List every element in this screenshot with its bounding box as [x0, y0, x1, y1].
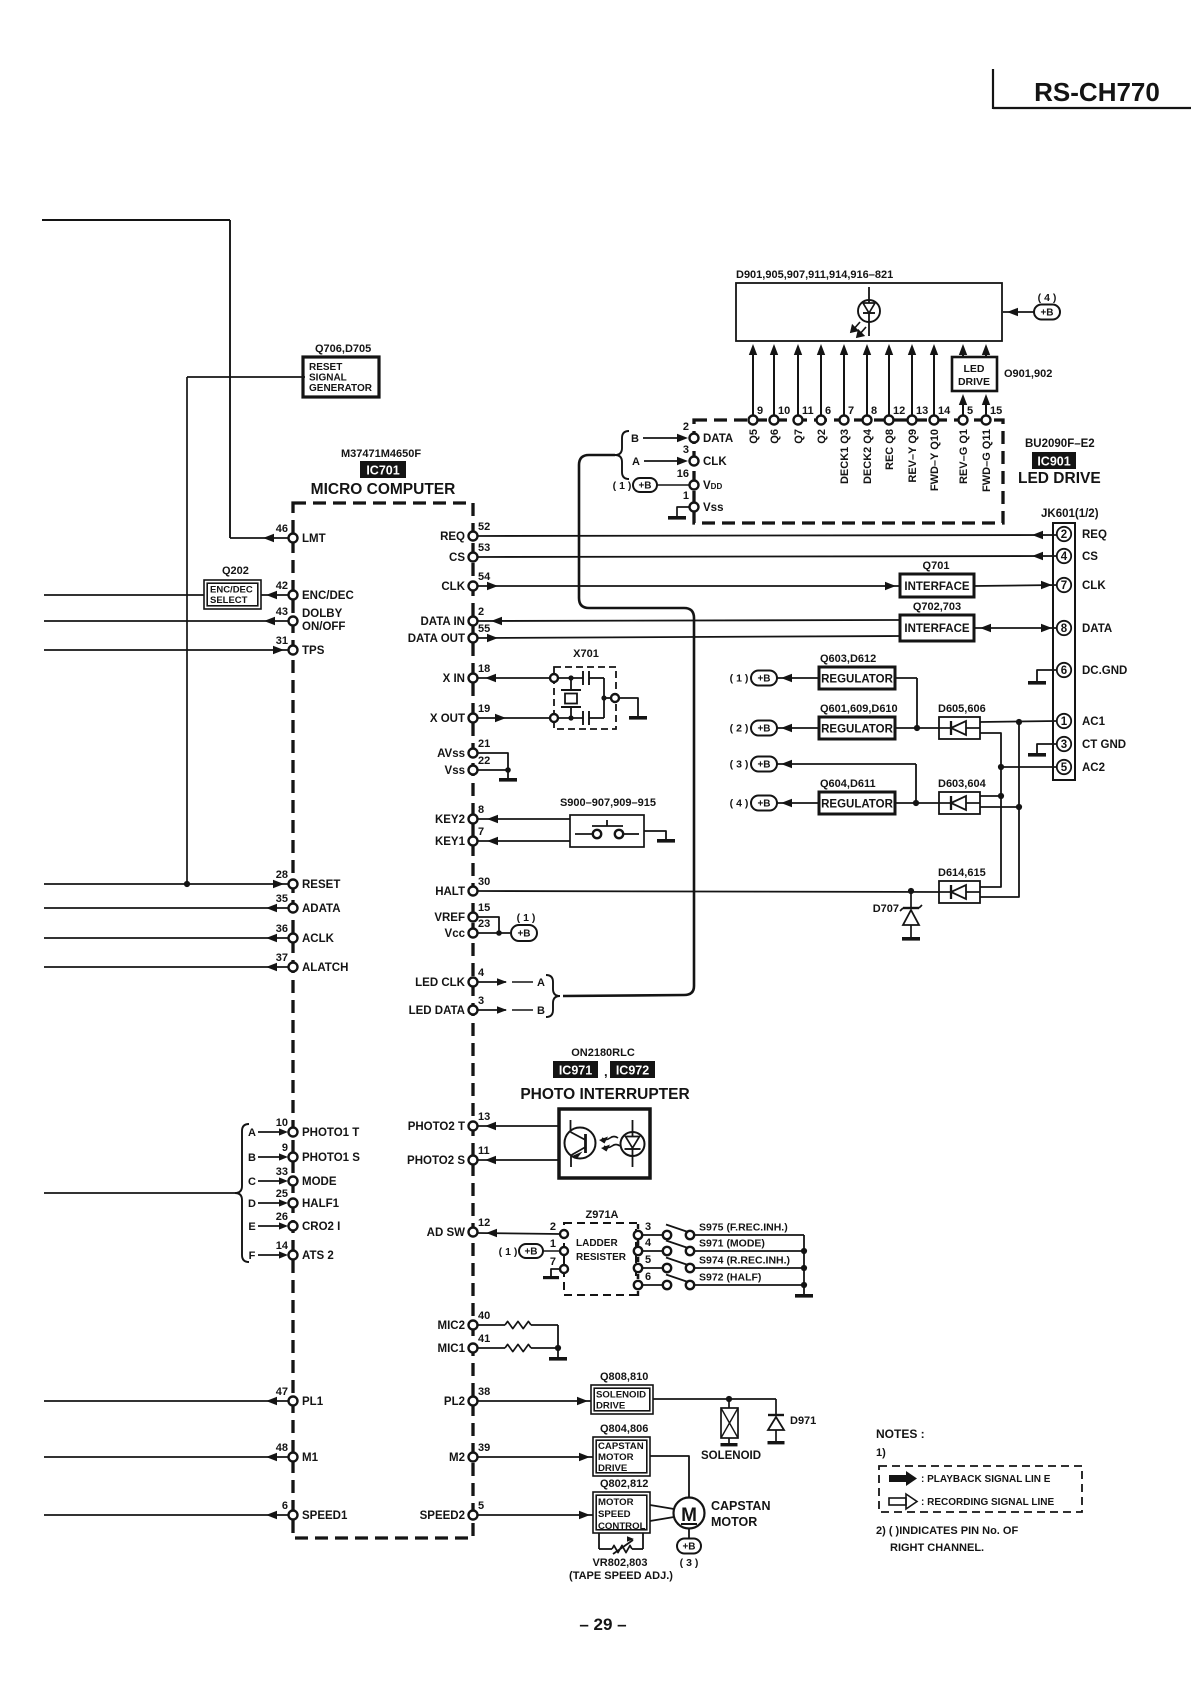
- svg-text:CS: CS: [1082, 551, 1098, 563]
- svg-text:AD SW: AD SW: [427, 1227, 465, 1239]
- svg-text:SOLENOID: SOLENOID: [596, 1390, 646, 1401]
- svg-text:GENERATOR: GENERATOR: [309, 383, 373, 394]
- svg-text:5: 5: [1061, 762, 1068, 774]
- svg-text:3: 3: [478, 995, 484, 1007]
- svg-text:46: 46: [276, 523, 288, 535]
- svg-text:IC701: IC701: [366, 464, 399, 478]
- svg-text:O901,902: O901,902: [1004, 368, 1052, 380]
- svg-text:ATS 2: ATS 2: [302, 1250, 334, 1262]
- svg-text:1: 1: [683, 490, 689, 502]
- svg-text:S974 (R.REC.INH.): S974 (R.REC.INH.): [699, 1255, 790, 1267]
- svg-text:CLK: CLK: [1082, 580, 1106, 592]
- svg-text:SOLENOID: SOLENOID: [701, 1450, 761, 1462]
- svg-text:BU2090F–E2: BU2090F–E2: [1025, 438, 1095, 450]
- svg-text:39: 39: [478, 1442, 490, 1454]
- svg-text:2: 2: [478, 606, 484, 618]
- svg-text:A: A: [537, 977, 545, 989]
- svg-text:B: B: [248, 1152, 256, 1164]
- svg-text:HALT: HALT: [435, 886, 465, 898]
- svg-text:Q808,810: Q808,810: [600, 1371, 648, 1383]
- svg-text:F: F: [249, 1250, 256, 1262]
- svg-text:MOTOR: MOTOR: [711, 1515, 757, 1529]
- svg-text:MIC1: MIC1: [438, 1343, 466, 1355]
- svg-text:LED: LED: [964, 363, 985, 375]
- svg-text:MIC2: MIC2: [438, 1320, 465, 1332]
- svg-text:X701: X701: [573, 648, 599, 660]
- svg-text:SELECT: SELECT: [210, 595, 248, 606]
- svg-text:ALATCH: ALATCH: [302, 962, 348, 974]
- svg-text:8: 8: [478, 804, 484, 816]
- svg-text:CT GND: CT GND: [1082, 739, 1126, 751]
- svg-text:ON/OFF: ON/OFF: [302, 621, 345, 633]
- svg-text:ENC/DEC: ENC/DEC: [210, 585, 253, 596]
- svg-text:+B: +B: [757, 674, 770, 685]
- svg-text:19: 19: [478, 703, 490, 715]
- svg-text:37: 37: [276, 952, 288, 964]
- svg-text:PL2: PL2: [444, 1396, 465, 1408]
- svg-text:VREF: VREF: [434, 912, 465, 924]
- svg-text:Q6: Q6: [769, 429, 781, 444]
- svg-text:LADDER: LADDER: [576, 1238, 618, 1249]
- svg-text:CAPSTAN: CAPSTAN: [598, 1441, 644, 1452]
- svg-text:Q603,D612: Q603,D612: [820, 653, 876, 665]
- svg-text:ON2180RLC: ON2180RLC: [571, 1047, 635, 1059]
- svg-text:4: 4: [645, 1237, 652, 1249]
- svg-text:VR802,803: VR802,803: [592, 1557, 647, 1569]
- svg-text:5: 5: [645, 1254, 651, 1266]
- svg-text:22: 22: [478, 755, 490, 767]
- svg-text:SPEED: SPEED: [598, 1509, 631, 1520]
- svg-text:35: 35: [276, 893, 288, 905]
- svg-text:D605,606: D605,606: [938, 703, 986, 715]
- svg-text:21: 21: [478, 738, 490, 750]
- svg-text:2: 2: [1061, 529, 1067, 541]
- svg-text:14: 14: [276, 1240, 289, 1252]
- svg-text:28: 28: [276, 869, 288, 881]
- svg-text:DRIVE: DRIVE: [598, 1463, 628, 1474]
- svg-text:( 4 ): ( 4 ): [1038, 292, 1057, 304]
- svg-text:9: 9: [757, 405, 763, 417]
- svg-text:Z971A: Z971A: [585, 1209, 618, 1221]
- svg-text:13: 13: [916, 405, 928, 417]
- svg-text:M: M: [681, 1505, 697, 1526]
- svg-text:Q2: Q2: [816, 429, 828, 444]
- svg-text:REV–Y Q9: REV–Y Q9: [907, 429, 919, 483]
- svg-text:16: 16: [677, 468, 689, 480]
- svg-text:A: A: [248, 1127, 256, 1139]
- svg-text:18: 18: [478, 663, 490, 675]
- svg-text:15: 15: [478, 902, 490, 914]
- svg-text:REQ: REQ: [1082, 529, 1107, 541]
- svg-text:8: 8: [1061, 623, 1068, 635]
- svg-text:E: E: [248, 1221, 255, 1233]
- svg-text:36: 36: [276, 923, 288, 935]
- svg-text:( 1 ): ( 1 ): [613, 480, 632, 492]
- svg-text:PHOTO INTERRUPTER: PHOTO INTERRUPTER: [520, 1086, 689, 1103]
- svg-text:DRIVE: DRIVE: [958, 376, 990, 388]
- svg-text:A: A: [632, 456, 640, 468]
- svg-text:6: 6: [282, 1500, 288, 1512]
- svg-text:IC972: IC972: [616, 1064, 649, 1078]
- svg-text:IC901: IC901: [1037, 455, 1070, 469]
- svg-text:RIGHT CHANNEL.: RIGHT CHANNEL.: [890, 1542, 984, 1554]
- svg-text:M1: M1: [302, 1452, 319, 1464]
- svg-text:REV–G Q1: REV–G Q1: [958, 429, 970, 484]
- svg-text:( 1 ): ( 1 ): [517, 912, 536, 924]
- svg-text:PHOTO1 T: PHOTO1 T: [302, 1127, 359, 1139]
- svg-text:CLK: CLK: [703, 456, 727, 468]
- svg-text:NOTES :: NOTES :: [876, 1427, 925, 1441]
- svg-text:+B: +B: [682, 1542, 695, 1553]
- svg-text:33: 33: [276, 1166, 288, 1178]
- svg-text:MOTOR: MOTOR: [598, 1497, 634, 1508]
- svg-text:31: 31: [276, 635, 288, 647]
- svg-text:CAPSTAN: CAPSTAN: [711, 1499, 771, 1513]
- svg-text:LMT: LMT: [302, 533, 326, 545]
- svg-text:KEY2: KEY2: [435, 814, 465, 826]
- svg-text:MODE: MODE: [302, 1176, 337, 1188]
- svg-text:PHOTO2 T: PHOTO2 T: [408, 1121, 465, 1133]
- svg-text:FWD–Y Q10: FWD–Y Q10: [929, 429, 941, 491]
- svg-text:LED DATA: LED DATA: [409, 1005, 465, 1017]
- svg-text:: RECORDING SIGNAL LINE: : RECORDING SIGNAL LINE: [921, 1497, 1054, 1508]
- svg-text:CLK: CLK: [441, 581, 465, 593]
- svg-text:26: 26: [276, 1211, 288, 1223]
- svg-text:7: 7: [478, 826, 484, 838]
- svg-text:B: B: [631, 433, 639, 445]
- svg-text:RESISTER: RESISTER: [576, 1252, 627, 1263]
- svg-text:+B: +B: [524, 1247, 537, 1258]
- svg-text:14: 14: [938, 405, 951, 417]
- svg-text:Vss: Vss: [445, 765, 465, 777]
- svg-text:(TAPE SPEED ADJ.): (TAPE SPEED ADJ.): [569, 1570, 673, 1582]
- svg-text:: PLAYBACK SIGNAL LIN E: : PLAYBACK SIGNAL LIN E: [921, 1474, 1051, 1485]
- svg-text:DATA: DATA: [703, 433, 733, 445]
- svg-text:( 1 ): ( 1 ): [730, 673, 749, 685]
- svg-text:SIGNAL: SIGNAL: [309, 373, 347, 384]
- svg-text:Q7: Q7: [793, 429, 805, 444]
- svg-text:REC Q8: REC Q8: [884, 429, 896, 470]
- svg-text:X OUT: X OUT: [430, 713, 465, 725]
- svg-text:30: 30: [478, 876, 490, 888]
- svg-text:+B: +B: [1040, 308, 1053, 319]
- svg-text:Q601,609,D610: Q601,609,D610: [820, 703, 898, 715]
- svg-text:+B: +B: [517, 929, 530, 940]
- svg-text:DATA OUT: DATA OUT: [408, 633, 465, 645]
- svg-text:LED CLK: LED CLK: [415, 977, 466, 989]
- svg-text:D614,615: D614,615: [938, 867, 986, 879]
- svg-text:FWD–G Q11: FWD–G Q11: [981, 429, 993, 492]
- svg-text:S975 (F.REC.INH.): S975 (F.REC.INH.): [699, 1222, 788, 1234]
- svg-text:S972 (HALF): S972 (HALF): [699, 1272, 761, 1284]
- svg-text:41: 41: [478, 1333, 490, 1345]
- svg-text:D: D: [248, 1198, 256, 1210]
- svg-text:Q706,D705: Q706,D705: [315, 343, 371, 355]
- svg-text:AVss: AVss: [437, 748, 465, 760]
- svg-text:AC2: AC2: [1082, 762, 1105, 774]
- svg-text:ENC/DEC: ENC/DEC: [302, 590, 354, 602]
- svg-text:10: 10: [778, 405, 790, 417]
- svg-text:12: 12: [478, 1217, 490, 1229]
- svg-text:+B: +B: [757, 799, 770, 810]
- svg-text:REGULATOR: REGULATOR: [821, 674, 893, 686]
- svg-text:2) ( )INDICATES PIN No. OF: 2) ( )INDICATES PIN No. OF: [876, 1525, 1018, 1537]
- svg-text:D971: D971: [790, 1415, 816, 1427]
- svg-text:( 3 ): ( 3 ): [680, 1557, 699, 1569]
- svg-text:+B: +B: [757, 760, 770, 771]
- svg-text:6: 6: [825, 405, 831, 417]
- svg-text:JK601(1/2): JK601(1/2): [1041, 508, 1099, 520]
- svg-text:REQ: REQ: [440, 531, 465, 543]
- svg-text:7: 7: [550, 1256, 556, 1268]
- svg-text:SPEED2: SPEED2: [420, 1510, 465, 1522]
- svg-text:PHOTO1 S: PHOTO1 S: [302, 1152, 360, 1164]
- svg-text:47: 47: [276, 1386, 288, 1398]
- svg-text:Q604,D611: Q604,D611: [820, 778, 876, 790]
- svg-text:ACLK: ACLK: [302, 933, 335, 945]
- svg-text:3: 3: [1061, 739, 1067, 751]
- svg-text:5: 5: [478, 1500, 484, 1512]
- svg-text:54: 54: [478, 571, 491, 583]
- svg-text:Q702,703: Q702,703: [913, 601, 961, 613]
- svg-text:9: 9: [282, 1142, 288, 1154]
- svg-text:4: 4: [478, 967, 485, 979]
- svg-text:S971 (MODE): S971 (MODE): [699, 1238, 765, 1250]
- svg-text:SPEED1: SPEED1: [302, 1510, 348, 1522]
- svg-text:D603,604: D603,604: [938, 778, 987, 790]
- svg-text:CONTROL: CONTROL: [598, 1521, 646, 1532]
- svg-text:REGULATOR: REGULATOR: [821, 724, 893, 736]
- svg-text:15: 15: [990, 405, 1002, 417]
- svg-text:48: 48: [276, 1442, 288, 1454]
- svg-text:40: 40: [478, 1310, 490, 1322]
- svg-text:( 4 ): ( 4 ): [730, 798, 749, 810]
- svg-text:6: 6: [645, 1271, 651, 1283]
- svg-text:MOTOR: MOTOR: [598, 1452, 634, 1463]
- svg-text:43: 43: [276, 606, 288, 618]
- svg-text:RESET: RESET: [309, 362, 342, 373]
- svg-text:RS-CH770: RS-CH770: [1034, 77, 1160, 107]
- svg-text:X IN: X IN: [443, 673, 465, 685]
- svg-text:MICRO COMPUTER: MICRO COMPUTER: [311, 481, 456, 498]
- svg-text:DOLBY: DOLBY: [302, 608, 343, 620]
- svg-text:( 1 ): ( 1 ): [499, 1246, 518, 1258]
- svg-text:Q804,806: Q804,806: [600, 1423, 648, 1435]
- svg-text:38: 38: [478, 1386, 490, 1398]
- svg-text:1): 1): [876, 1447, 886, 1459]
- svg-text:S900–907,909–915: S900–907,909–915: [560, 797, 656, 809]
- svg-text:7: 7: [1061, 580, 1067, 592]
- svg-text:4: 4: [1061, 551, 1068, 563]
- svg-text:,: ,: [604, 1064, 608, 1079]
- svg-text:53: 53: [478, 542, 490, 554]
- svg-text:PL1: PL1: [302, 1396, 324, 1408]
- svg-text:B: B: [537, 1005, 545, 1017]
- svg-text:8: 8: [871, 405, 877, 417]
- svg-text:13: 13: [478, 1111, 490, 1123]
- svg-text:( 2 ): ( 2 ): [730, 723, 749, 735]
- svg-text:+B: +B: [757, 724, 770, 735]
- svg-text:LED DRIVE: LED DRIVE: [1018, 470, 1101, 487]
- svg-text:52: 52: [478, 521, 490, 533]
- svg-text:3: 3: [683, 444, 689, 456]
- svg-text:2: 2: [550, 1221, 556, 1233]
- svg-text:55: 55: [478, 623, 490, 635]
- svg-text:– 29 –: – 29 –: [579, 1615, 626, 1634]
- svg-text:11: 11: [802, 405, 814, 417]
- svg-text:12: 12: [893, 405, 905, 417]
- svg-text:TPS: TPS: [302, 645, 325, 657]
- svg-text:25: 25: [276, 1188, 288, 1200]
- svg-text:M2: M2: [449, 1452, 465, 1464]
- svg-text:( 3 ): ( 3 ): [730, 759, 749, 771]
- svg-text:3: 3: [645, 1221, 651, 1233]
- svg-text:DATA: DATA: [1082, 623, 1112, 635]
- svg-text:7: 7: [848, 405, 854, 417]
- svg-text:CS: CS: [449, 552, 465, 564]
- svg-text:DC.GND: DC.GND: [1082, 665, 1127, 677]
- svg-text:ADATA: ADATA: [302, 903, 341, 915]
- svg-text:Q701: Q701: [923, 560, 950, 572]
- svg-text:1: 1: [550, 1238, 556, 1250]
- svg-text:KEY1: KEY1: [435, 836, 466, 848]
- svg-text:D901,905,907,911,914,916–821: D901,905,907,911,914,916–821: [736, 269, 893, 281]
- svg-text:M37471M4650F: M37471M4650F: [341, 448, 421, 460]
- svg-text:1: 1: [1061, 716, 1068, 728]
- svg-text:Vss: Vss: [703, 502, 723, 514]
- svg-text:HALF1: HALF1: [302, 1198, 340, 1210]
- svg-text:Q202: Q202: [222, 565, 249, 577]
- svg-text:INTERFACE: INTERFACE: [904, 623, 970, 635]
- svg-text:+B: +B: [638, 481, 651, 492]
- svg-text:INTERFACE: INTERFACE: [904, 581, 970, 593]
- svg-text:DATA IN: DATA IN: [420, 616, 465, 628]
- svg-text:23: 23: [478, 918, 490, 930]
- svg-text:PHOTO2 S: PHOTO2 S: [407, 1155, 465, 1167]
- svg-text:Q802,812: Q802,812: [600, 1478, 648, 1490]
- svg-text:6: 6: [1061, 665, 1067, 677]
- svg-text:C: C: [248, 1176, 256, 1188]
- svg-text:RESET: RESET: [302, 879, 340, 891]
- svg-text:VDD: VDD: [703, 480, 722, 492]
- svg-text:42: 42: [276, 580, 288, 592]
- svg-text:2: 2: [683, 421, 689, 433]
- svg-text:10: 10: [276, 1117, 288, 1129]
- svg-text:Vcc: Vcc: [445, 928, 466, 940]
- svg-text:DECK2 Q4: DECK2 Q4: [862, 428, 874, 484]
- svg-text:CRO2 I: CRO2 I: [302, 1221, 340, 1233]
- svg-text:D707: D707: [873, 903, 899, 915]
- svg-text:5: 5: [967, 405, 973, 417]
- svg-text:IC971: IC971: [559, 1064, 592, 1078]
- svg-text:11: 11: [478, 1145, 490, 1157]
- svg-text:DECK1 Q3: DECK1 Q3: [839, 429, 851, 484]
- svg-text:AC1: AC1: [1082, 716, 1106, 728]
- svg-text:DRIVE: DRIVE: [596, 1401, 626, 1412]
- svg-text:Q5: Q5: [748, 429, 760, 444]
- svg-text:REGULATOR: REGULATOR: [821, 799, 893, 811]
